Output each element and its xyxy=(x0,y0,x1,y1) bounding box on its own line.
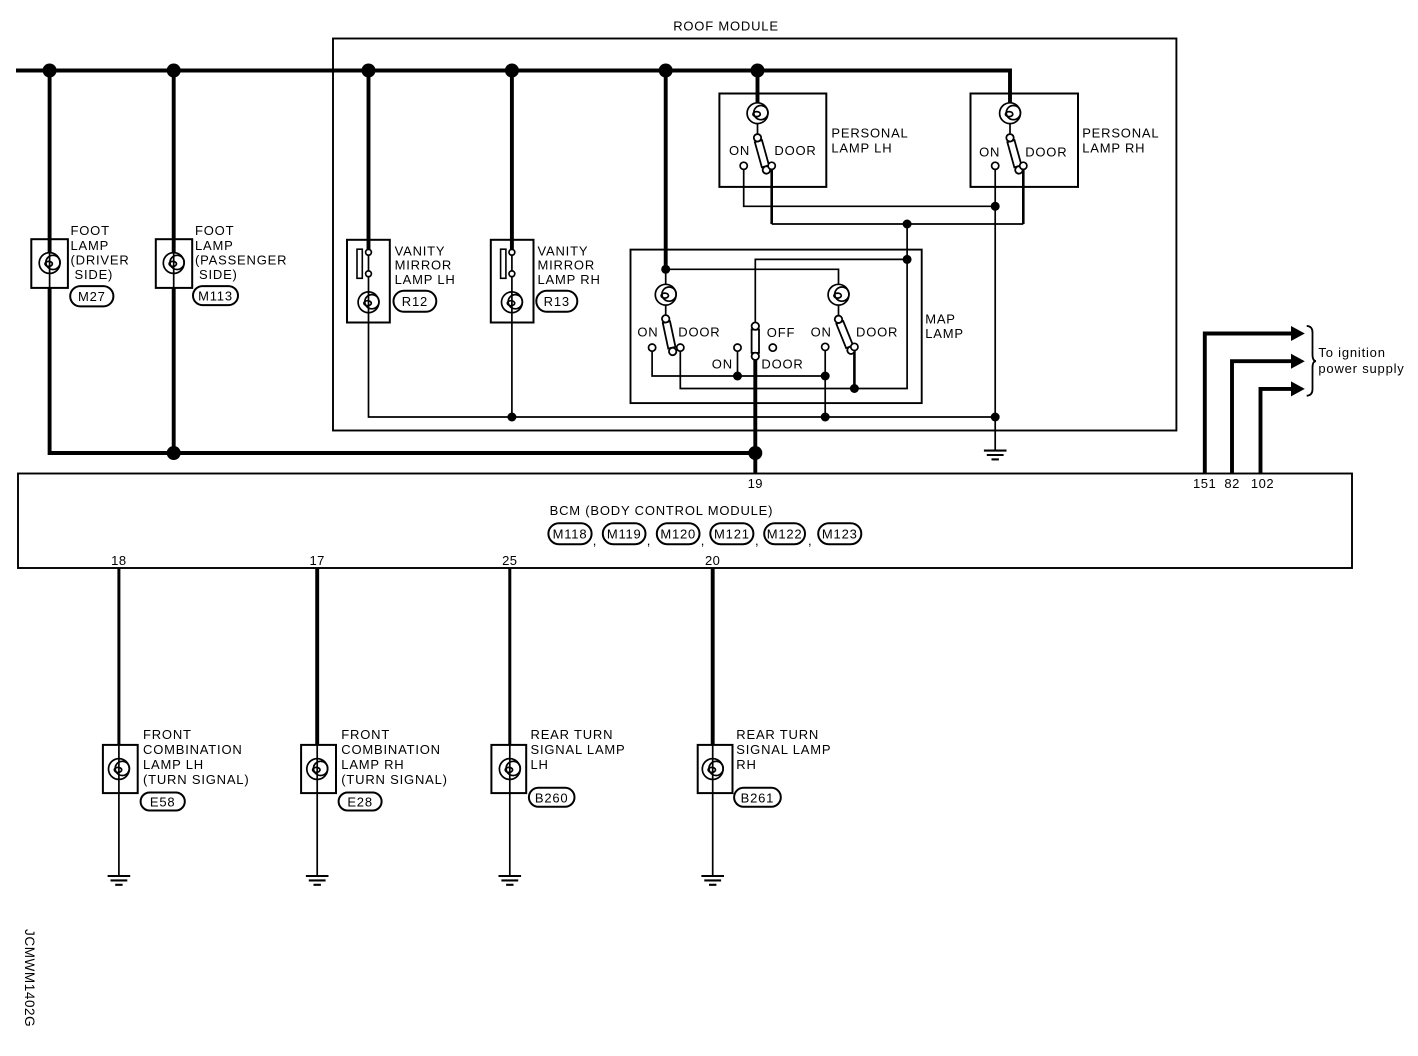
vanity mirror lamp RH box xyxy=(491,240,534,323)
front combination lamp LH box xyxy=(103,745,138,793)
foot lamp (driver side) box xyxy=(31,239,68,288)
rear turn signal lamp RH box xyxy=(698,745,733,793)
wire: middle switch feed from DOOR riser xyxy=(755,259,907,323)
svg-text:(PASSENGER: (PASSENGER xyxy=(195,252,287,267)
svg-text:power supply: power supply xyxy=(1318,361,1404,376)
rear turn LH bulb xyxy=(499,759,520,780)
wire: personal RH ON terminal down to ground xyxy=(994,170,996,450)
svg-text:20: 20 xyxy=(705,553,720,568)
svg-text:REAR TURN: REAR TURN xyxy=(531,727,614,742)
svg-text:E28: E28 xyxy=(347,794,373,809)
personal LH bulb xyxy=(747,103,768,124)
svg-text:MIRROR: MIRROR xyxy=(538,257,596,272)
svg-text:ON: ON xyxy=(637,325,658,340)
rear turn signal lamp LH box xyxy=(491,745,526,793)
svg-text:VANITY: VANITY xyxy=(538,244,589,259)
foot lamp driver label xyxy=(71,223,130,282)
svg-text:ROOF MODULE: ROOF MODULE xyxy=(673,19,779,34)
vanity mirror lamp LH box xyxy=(347,240,390,323)
wire: BCM pin 18 to front combination lamp LH xyxy=(117,568,120,745)
svg-text:(DRIVER: (DRIVER xyxy=(71,252,130,267)
svg-text:To ignition: To ignition xyxy=(1318,345,1385,360)
wire: BCM pin 82 to ignition supply xyxy=(1232,361,1292,473)
svg-text:LAMP RH: LAMP RH xyxy=(538,272,601,287)
svg-text:LAMP RH: LAMP RH xyxy=(1082,141,1145,156)
wire: BCM pin 151 to ignition supply xyxy=(1205,334,1292,474)
BCM box xyxy=(18,474,1352,569)
svg-text:LAMP: LAMP xyxy=(71,238,110,253)
svg-text:DOOR: DOOR xyxy=(774,143,816,158)
svg-text:19: 19 xyxy=(748,476,763,491)
svg-text:M121: M121 xyxy=(714,527,750,542)
wire: right bulb to right lever xyxy=(838,305,840,316)
svg-text:M119: M119 xyxy=(607,527,642,542)
svg-text:BCM (BODY CONTROL MODULE): BCM (BODY CONTROL MODULE) xyxy=(550,503,774,518)
svg-text:LAMP: LAMP xyxy=(195,238,234,253)
svg-text:ON: ON xyxy=(729,143,750,158)
wire: vanity RH internal down to ground line xyxy=(511,252,513,417)
wire: map DOOR net up to personal DOOR line xyxy=(680,224,907,389)
map middle OFF terminal xyxy=(769,344,776,351)
map left lever xyxy=(661,314,677,355)
svg-text:SIGNAL LAMP: SIGNAL LAMP xyxy=(531,742,626,757)
svg-text:ON: ON xyxy=(712,356,733,371)
roof module box xyxy=(333,39,1176,431)
svg-text:17: 17 xyxy=(309,553,324,568)
junction on bus at map lamp xyxy=(659,64,673,78)
vanity LH terminal 2 xyxy=(366,271,372,277)
svg-text:ON: ON xyxy=(811,325,832,340)
map right ON terminal xyxy=(822,343,829,350)
svg-text:DOOR: DOOR xyxy=(1025,145,1067,160)
svg-text:82: 82 xyxy=(1224,476,1239,491)
junction on bus at vanity RH xyxy=(505,64,519,78)
svg-text:151: 151 xyxy=(1193,476,1216,491)
junction ON net at right switch xyxy=(821,372,830,381)
map left ON terminal xyxy=(649,344,656,351)
map bulb right xyxy=(828,284,849,305)
svg-text:COMBINATION: COMBINATION xyxy=(341,742,441,757)
svg-text:MAP: MAP xyxy=(925,311,956,326)
svg-text:R13: R13 xyxy=(544,294,570,309)
wire: BCM pin 20 to rear turn signal lamp RH xyxy=(711,568,715,745)
personal lamp RH box xyxy=(971,94,1079,187)
front combination RH bulb xyxy=(307,759,328,780)
wire: personal LH bulb to lever xyxy=(757,124,759,135)
wire: map feed to right map bulb xyxy=(666,269,839,284)
rear turn signal lamp LH label xyxy=(531,727,626,772)
svg-text:FRONT: FRONT xyxy=(341,727,390,742)
wire: bus drop to vanity LH xyxy=(367,68,371,252)
map bulb left xyxy=(655,284,676,305)
map middle ON terminal xyxy=(734,344,741,351)
connector R13 xyxy=(536,291,577,312)
MAP LAMP label xyxy=(925,311,964,341)
junction lower bus at BCM pin 19 xyxy=(748,446,762,460)
connector E58 xyxy=(141,793,185,811)
svg-text:ON: ON xyxy=(979,145,1000,160)
junction on bus at foot lamp passenger xyxy=(167,64,181,78)
junction ground line at personal ON drop xyxy=(991,413,1000,422)
wire: vanity LH internal and ground line to right xyxy=(369,252,996,417)
svg-text:SIDE): SIDE) xyxy=(75,267,114,282)
wire: BCM pin 17 to front combination lamp RH xyxy=(315,568,319,745)
svg-text:SIGNAL LAMP: SIGNAL LAMP xyxy=(736,742,831,757)
svg-text:B260: B260 xyxy=(535,790,569,805)
junction ON net at personal RH drop xyxy=(991,202,1000,211)
svg-text:DOOR: DOOR xyxy=(856,325,898,340)
svg-text:(TURN SIGNAL): (TURN SIGNAL) xyxy=(143,772,249,787)
connector R12 xyxy=(394,291,437,312)
junction DOOR net at right switch xyxy=(850,384,859,393)
svg-text:18: 18 xyxy=(111,553,126,568)
front combination lamp RH box xyxy=(301,745,336,793)
svg-text:R12: R12 xyxy=(402,294,428,309)
connector B261 xyxy=(734,788,781,807)
svg-text:COMBINATION: COMBINATION xyxy=(143,742,243,757)
svg-text:MIRROR: MIRROR xyxy=(395,257,453,272)
vanity RH bulb xyxy=(502,292,523,313)
map right DOOR terminal xyxy=(851,343,858,350)
wire: bus drop to vanity RH xyxy=(510,68,514,252)
wire: middle switch ON terminal drop xyxy=(737,351,739,376)
svg-text:DOOR: DOOR xyxy=(678,325,720,340)
rear turn RH bulb xyxy=(702,759,723,780)
svg-text:,: , xyxy=(701,533,705,548)
personal LH ON terminal xyxy=(740,162,747,169)
wire: map ON net xyxy=(652,351,825,376)
junction ground line at vanity RH xyxy=(507,413,516,422)
wire: personal LH ON net xyxy=(744,170,996,207)
wire: left bulb to left lever xyxy=(665,305,667,315)
map left DOOR terminal xyxy=(677,344,684,351)
foot lamp passenger bulb xyxy=(163,253,184,274)
junction ground line at map ON net xyxy=(821,413,830,422)
connector M119 xyxy=(603,523,646,544)
svg-text:REAR TURN: REAR TURN xyxy=(736,727,819,742)
wire: bus drop to map lamp xyxy=(664,68,668,269)
svg-text:FRONT: FRONT xyxy=(143,727,192,742)
personal lamp LH label xyxy=(831,126,908,156)
wire: right switch DOOR terminal drop xyxy=(853,351,856,389)
svg-text:25: 25 xyxy=(502,553,517,568)
svg-text:LAMP: LAMP xyxy=(925,326,964,341)
wire: personal DOOR net xyxy=(770,170,773,225)
junction on bus at personal lamp LH xyxy=(751,64,765,78)
foot lamp passenger label xyxy=(195,223,287,282)
vanity RH label xyxy=(538,244,601,287)
svg-text:SIDE): SIDE) xyxy=(199,267,238,282)
personal RH lever xyxy=(1005,133,1023,174)
ground E58 xyxy=(108,876,131,885)
svg-text:M118: M118 xyxy=(553,527,588,542)
arrow 151 xyxy=(1291,326,1305,341)
svg-text:LAMP LH: LAMP LH xyxy=(395,272,456,287)
map right lever xyxy=(834,314,856,355)
ground B260 xyxy=(499,876,522,885)
svg-text:(TURN SIGNAL): (TURN SIGNAL) xyxy=(341,772,447,787)
svg-text:FOOT: FOOT xyxy=(195,223,234,238)
svg-text:LAMP LH: LAMP LH xyxy=(831,141,892,156)
svg-text:JCMWM1402G: JCMWM1402G xyxy=(22,929,37,1027)
connector M118 xyxy=(548,523,591,544)
wire: bus drop to personal lamp LH xyxy=(756,68,760,103)
vanity LH label xyxy=(395,244,456,287)
personal lamp RH label xyxy=(1082,126,1159,156)
connector M123 xyxy=(818,523,861,544)
personal RH ON terminal xyxy=(992,162,999,169)
map lamp box xyxy=(631,250,922,404)
svg-text:B261: B261 xyxy=(741,790,775,805)
personal LH lever xyxy=(753,133,771,174)
svg-text:RH: RH xyxy=(736,757,756,772)
connector M120 xyxy=(657,523,700,544)
arrow 102 xyxy=(1291,381,1305,396)
foot lamp driver bulb xyxy=(39,253,60,274)
svg-text:VANITY: VANITY xyxy=(395,244,446,259)
connector M122 xyxy=(764,523,805,544)
wire: map feed to left map bulb xyxy=(665,269,667,284)
connector E28 xyxy=(339,793,382,811)
connector B260 xyxy=(529,788,575,807)
ground for roof module lamps xyxy=(984,451,1007,460)
svg-text:102: 102 xyxy=(1251,476,1274,491)
front combination lamp RH label xyxy=(341,727,447,787)
svg-text:,: , xyxy=(755,533,759,548)
junction on bus at foot lamp driver xyxy=(43,64,57,78)
svg-text:,: , xyxy=(593,533,597,548)
personal RH DOOR terminal xyxy=(1020,162,1027,169)
svg-text:M120: M120 xyxy=(660,527,696,542)
svg-text:FOOT: FOOT xyxy=(71,223,110,238)
svg-text:PERSONAL: PERSONAL xyxy=(1082,126,1159,141)
svg-text:E58: E58 xyxy=(150,794,176,809)
svg-text:,: , xyxy=(808,533,812,548)
vanity RH terminal 2 xyxy=(509,271,515,277)
svg-text:M123: M123 xyxy=(822,527,858,542)
svg-text:M113: M113 xyxy=(198,289,233,304)
wire: bus drop to foot lamp passenger xyxy=(172,68,176,253)
arrow 82 xyxy=(1291,354,1305,369)
svg-text:M27: M27 xyxy=(78,289,106,304)
svg-text:DOOR: DOOR xyxy=(761,356,803,371)
ground B261 xyxy=(701,876,724,885)
front combination lamp LH label xyxy=(143,727,249,787)
wire: right switch ON terminal drop to ground line xyxy=(824,351,826,418)
personal RH bulb xyxy=(1000,103,1021,124)
svg-text:PERSONAL: PERSONAL xyxy=(831,126,908,141)
vanity LH slide bar xyxy=(357,249,362,278)
personal LH DOOR terminal xyxy=(768,162,775,169)
svg-text:,: , xyxy=(647,533,651,548)
junction lower bus at foot lamp passenger xyxy=(167,446,181,460)
brace xyxy=(1307,326,1316,396)
svg-text:M122: M122 xyxy=(767,527,803,542)
vanity LH terminal 1 xyxy=(366,249,372,255)
ground E28 xyxy=(306,876,329,885)
svg-text:OFF: OFF xyxy=(767,325,795,340)
svg-text:LAMP RH: LAMP RH xyxy=(341,757,404,772)
svg-text:LAMP LH: LAMP LH xyxy=(143,757,204,772)
junction DOOR riser at middle-switch feed xyxy=(903,255,912,264)
wire: top power bus xyxy=(16,71,1010,104)
rear turn signal lamp RH label xyxy=(736,727,831,772)
wire: BCM pin 102 to ignition supply xyxy=(1261,389,1293,474)
connector M27 xyxy=(70,286,113,306)
vanity LH bulb xyxy=(358,292,379,313)
front combination LH bulb xyxy=(109,759,130,780)
junction on bus at vanity LH xyxy=(362,64,376,78)
wire: BCM pin 25 to rear turn signal lamp LH xyxy=(508,568,511,745)
map middle lever xyxy=(752,322,759,360)
To ignition power supply label xyxy=(1318,345,1404,376)
svg-text:LH: LH xyxy=(531,757,549,772)
vanity RH slide bar xyxy=(501,249,506,278)
personal lamp LH box xyxy=(719,94,826,187)
junction map feed xyxy=(661,265,670,274)
connector M113 xyxy=(193,286,238,305)
connector M121 xyxy=(710,523,753,544)
junction DOOR net at map riser xyxy=(903,220,912,229)
wire: bus drop to foot lamp driver and lower return bus xyxy=(48,68,52,253)
junction ON net at middle switch xyxy=(733,372,742,381)
vanity RH terminal 1 xyxy=(509,249,515,255)
foot lamp (passenger side) box xyxy=(156,239,192,288)
wire: middle switch output to BCM pin 19 xyxy=(753,353,757,474)
wire: personal RH bulb to lever xyxy=(1009,124,1011,135)
